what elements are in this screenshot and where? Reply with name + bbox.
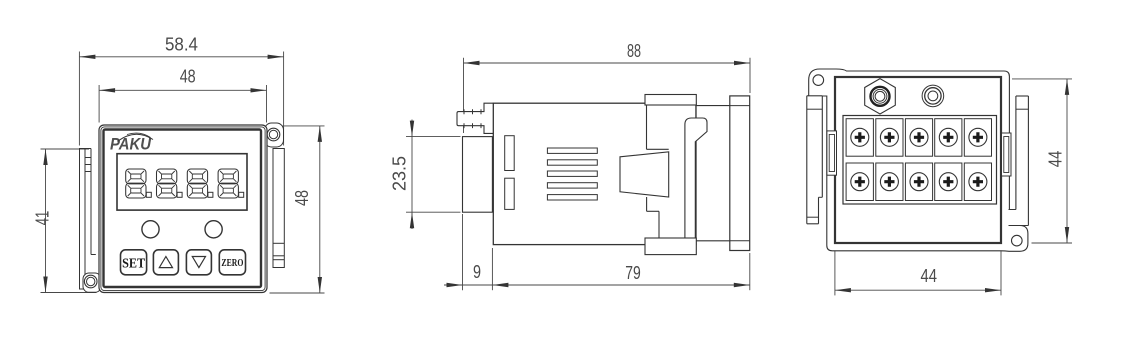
back view: terminal cells and screws <box>846 119 991 201</box>
svg-text:9: 9 <box>473 262 481 282</box>
front view: seven-segment digits 8.8.8.8. <box>126 169 244 198</box>
svg-text:SET: SET <box>122 257 146 272</box>
back view: dimension 44 (height, right) <box>1012 79 1072 243</box>
front view: dimension 48 (bezel width) <box>99 66 266 122</box>
back view: terminal block <box>843 116 997 205</box>
svg-text:23.5: 23.5 <box>390 156 410 191</box>
side view: dimension 79 (case depth) <box>492 248 749 290</box>
front view: indicator lamp right <box>205 221 222 238</box>
svg-text:48: 48 <box>292 190 312 206</box>
front view: left mounting bracket with ratchet notches <box>80 149 96 290</box>
side view: mounting clip hook <box>685 105 707 238</box>
front view: top-right mounting ear with screw hole <box>265 123 284 147</box>
svg-text:88: 88 <box>627 41 641 61</box>
side view: rear connector plug with ticks <box>457 103 493 133</box>
front view: dimension 48 (bezel height, right) <box>270 126 325 293</box>
svg-text:79: 79 <box>625 263 641 283</box>
svg-text:ZERO: ZERO <box>221 258 243 269</box>
front view: PAKU logo <box>110 133 153 153</box>
side view: mounting clip slab with release trapezoid <box>620 105 669 238</box>
side view: dimension 88 (overall depth) <box>464 41 751 133</box>
side view: dimension 23.5 (terminal cover height) <box>390 120 461 230</box>
back view: left latch window <box>827 131 837 175</box>
side view: rear slot left lower <box>505 178 515 209</box>
back view: ear screw hole top-left <box>813 75 824 86</box>
front view: SET button <box>121 250 147 275</box>
svg-text:44: 44 <box>1046 151 1066 168</box>
front view: bottom-left mounting ear with screw hole <box>83 273 101 292</box>
svg-text:41: 41 <box>33 211 53 226</box>
back view: hex nut with shaft <box>865 79 896 114</box>
back view: mounting plate with corner ears <box>809 69 1028 251</box>
side view: case body <box>493 103 730 244</box>
back view: dimension 44 (width, bottom) <box>835 246 1001 295</box>
back view: ear screw hole bottom-right <box>1012 235 1023 246</box>
side view: front bezel (edge-on) <box>730 96 750 251</box>
svg-text:58.4: 58.4 <box>165 35 198 55</box>
front view: ZERO button <box>219 250 245 275</box>
side view: dimension 9 (terminal cover depth) <box>444 214 492 290</box>
back view: left mounting rail <box>807 96 823 224</box>
front view: indicator lamp left <box>142 221 159 238</box>
front view: dimension 41 (bracket height, left) <box>33 149 97 293</box>
side view: clip top flange <box>645 95 696 106</box>
front view: bezel outer frame (double line) <box>99 125 267 293</box>
front view: right mounting bracket with ratchet notches <box>273 149 284 268</box>
svg-text:44: 44 <box>921 266 938 286</box>
svg-text:PAKU: PAKU <box>110 135 152 154</box>
side view: clip bottom flange <box>645 238 696 255</box>
front view: UP arrow button <box>153 250 178 275</box>
side view: rear slot left upper <box>505 136 515 171</box>
back view: grommet bushing <box>922 85 944 107</box>
back view: right mounting rail <box>1009 96 1029 226</box>
front view: LCD display window <box>117 154 247 210</box>
front view: DOWN arrow button <box>186 250 211 275</box>
side view: ventilation slats <box>547 148 597 200</box>
back view: case back (thick border) <box>835 77 1001 243</box>
svg-text:48: 48 <box>180 66 196 86</box>
front view: dimension 58.4 (overall width) <box>79 35 283 146</box>
front view: front panel (thick border) <box>104 130 262 288</box>
side view: terminal cover <box>463 137 493 213</box>
back view: right latch window <box>1002 133 1012 176</box>
